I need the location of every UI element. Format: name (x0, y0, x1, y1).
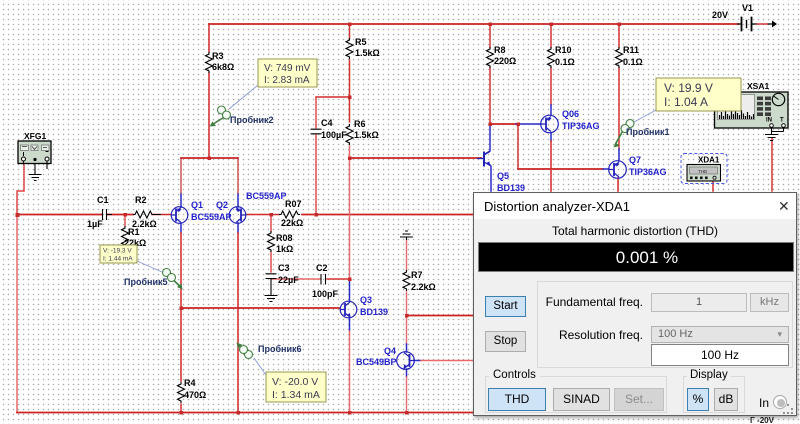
wire Q06 base blue (516, 123, 541, 125)
svg-text:Q2: Q2 (216, 200, 228, 210)
junction dots (16, 213, 20, 217)
svg-text:Γ -20V: Γ -20V (750, 416, 775, 424)
wire R10 top (550, 24, 552, 47)
label C3 (278, 263, 299, 285)
svg-text:20V: 20V (712, 10, 728, 20)
wire R8 bottom to Q06 base node (489, 68, 491, 124)
probe Пробник2 (210, 59, 318, 127)
dialog close button (778, 198, 790, 215)
transistor Q7 (609, 161, 627, 179)
transistor Q2 (229, 207, 246, 224)
svg-text:T: T (780, 118, 784, 124)
svg-text:C1: C1 (97, 195, 109, 205)
wire C1 to R2 (107, 214, 133, 216)
svg-text:V1: V1 (742, 3, 753, 13)
wire R08 branch (270, 215, 272, 232)
group box Display (683, 376, 745, 413)
svg-text:R10: R10 (555, 45, 572, 55)
label C1 (87, 195, 109, 229)
wire R08 to C3 (270, 252, 272, 272)
svg-text:I: 1.04 A: I: 1.04 A (664, 95, 708, 109)
label C4 (321, 118, 347, 140)
wire Q1 collector red down (180, 233, 182, 381)
wire R5 R6 column top (349, 24, 351, 38)
wire Q4 base to dialog (421, 360, 474, 362)
svg-text:Пробник6: Пробник6 (258, 344, 302, 354)
svg-text:Пробник2: Пробник2 (230, 115, 274, 125)
resistor R10 (548, 47, 555, 68)
battery V1 (738, 18, 777, 31)
wire bottom rail (17, 412, 474, 414)
wire R11 bottom to Q7 (618, 68, 620, 149)
wire R5 bottom to C4 junction (349, 60, 351, 122)
svg-text:100µF: 100µF (321, 130, 347, 140)
wire Q7 base blue stub (603, 168, 609, 170)
wire XSA1 IN pin down (771, 138, 773, 191)
wire C4 top (315, 97, 317, 128)
wire Q2 emitter drop (237, 158, 239, 194)
resistor R07 (279, 211, 300, 218)
group box Controls (485, 376, 667, 413)
probe Пробник1 (614, 78, 742, 148)
svg-text:XFG1: XFG1 (24, 131, 46, 141)
svg-text:V: -19.3 V: V: -19.3 V (103, 248, 132, 255)
dropdown 100 Hz (651, 326, 789, 343)
wire R3 top vertical (208, 24, 210, 52)
wire input net from XFG1 (17, 164, 24, 214)
wire XDA1 pin down (712, 181, 714, 191)
svg-text:C4: C4 (321, 118, 333, 128)
transistor Q1 (171, 207, 188, 224)
button Set disabled (614, 388, 664, 411)
button Stop (485, 331, 526, 352)
label Q1 (191, 200, 232, 222)
svg-text:I: 1.34 mA: I: 1.34 mA (272, 389, 320, 401)
svg-text:C2: C2 (316, 263, 328, 273)
wire Q06 bottom to dialog (550, 141, 552, 191)
wire R3 bottom to Q1Q2 emitter rail (208, 73, 210, 158)
wire ground to R7 (406, 240, 408, 270)
resistor R2 (133, 211, 161, 218)
resistor R11 (616, 47, 623, 68)
svg-text:1µF: 1µF (87, 219, 103, 229)
ground below XSA1 (765, 127, 784, 141)
resistor R6 (346, 124, 353, 145)
wire left feedback vertical (16, 215, 18, 413)
button Start (485, 296, 526, 317)
label Q4 (356, 346, 397, 367)
label C2 (312, 263, 339, 299)
svg-text:IN: IN (766, 118, 772, 124)
svg-text:XDA1: XDA1 (698, 156, 720, 165)
button SINAD (553, 388, 610, 411)
svg-text:BD139: BD139 (360, 307, 388, 317)
label -20V under dialog (750, 416, 775, 424)
svg-text:R11: R11 (623, 45, 639, 55)
wire Q06 base horizontal (490, 123, 516, 125)
wire Q1 collector down to R4 (180, 223, 182, 233)
svg-text:BC559AP: BC559AP (191, 212, 232, 222)
svg-text:R08: R08 (276, 233, 293, 243)
wire Q06 base node down (517, 124, 519, 169)
resistor R4 (178, 382, 185, 403)
wire Q2 collector down (237, 223, 239, 233)
wire Q5 collector blue (485, 124, 490, 154)
label Fundamental freq (517, 295, 643, 309)
wire Q1 emitter drop (180, 158, 182, 194)
wire Q2 base to R07 (246, 214, 279, 216)
wire Q4 emitter to rail (406, 377, 408, 413)
svg-text:Пробник5: Пробник5 (124, 277, 168, 287)
dialog Distortion analyzer-XDA1 (473, 192, 797, 416)
wire C4 bottom to input net (315, 135, 317, 215)
wire input horizontal to C1 (17, 214, 102, 216)
svg-text:Пробник1: Пробник1 (626, 127, 670, 137)
svg-text:R4: R4 (184, 378, 196, 388)
button THD (488, 388, 546, 411)
wire Q06 bottom blue (550, 133, 552, 141)
svg-text:R7: R7 (411, 270, 423, 280)
ground below C3 (265, 285, 278, 302)
capacitor C1 (103, 209, 113, 220)
svg-text:R1: R1 (128, 227, 140, 237)
label R7 (411, 270, 436, 292)
label Q5 (497, 171, 525, 193)
label Q06 (562, 109, 600, 131)
wire C2 right to Q3 collector column (327, 278, 350, 280)
svg-text:6k8Ω: 6k8Ω (212, 62, 234, 72)
svg-text:220Ω: 220Ω (494, 56, 516, 66)
svg-text:1.5kΩ: 1.5kΩ (354, 130, 379, 140)
label Resolution freq (517, 328, 643, 342)
svg-text:I: 2.83 mA: I: 2.83 mA (264, 75, 310, 86)
label R2 (132, 195, 157, 229)
field kHz (750, 293, 789, 312)
label Q7 (629, 155, 667, 177)
wire Q7 base horizontal (518, 168, 603, 170)
svg-text:R3: R3 (212, 51, 224, 61)
svg-text:Q7: Q7 (629, 155, 641, 165)
resize grip (787, 404, 789, 406)
svg-text:Q1: Q1 (191, 200, 203, 210)
dialog THD caption (474, 224, 796, 238)
svg-text:0.1Ω: 0.1Ω (623, 57, 643, 67)
function generator XFG1 (18, 131, 51, 169)
wire Q7 top blue (618, 149, 620, 161)
svg-text:2.2kΩ: 2.2kΩ (411, 282, 436, 292)
In radio (759, 396, 769, 410)
label R11 (623, 45, 643, 67)
label R3 (212, 51, 234, 72)
wire Q4 base blue stub (414, 360, 421, 362)
svg-text:V: -20.0 V: V: -20.0 V (272, 376, 318, 388)
resistor R08 (268, 231, 275, 252)
button percent (687, 388, 709, 411)
capacitor C3 (266, 274, 277, 285)
svg-text:I: 1.44 mA: I: 1.44 mA (103, 256, 133, 263)
field 100 Hz white (651, 344, 789, 366)
svg-text:Q5: Q5 (497, 171, 509, 181)
transistor Q3 (340, 301, 357, 318)
label R1 (124, 227, 146, 248)
svg-text:C3: C3 (278, 263, 290, 273)
wire R2 to Q1 base (152, 214, 171, 216)
ground below XFG1 (29, 161, 42, 181)
wire top +20V rail (209, 23, 738, 25)
wire R10 bottom (550, 68, 552, 105)
wire Q2 emitter blue (237, 194, 239, 207)
group box frequencies (537, 281, 793, 368)
svg-text:R6: R6 (354, 119, 366, 129)
svg-text:22µF: 22µF (278, 275, 299, 285)
wire R11 top (618, 24, 620, 47)
wire Q3 emitter blue (349, 318, 351, 331)
dialog black display 0.001% (478, 242, 794, 272)
wire R6 junction to Q5 base (350, 157, 482, 159)
wire R7 node to dialog (407, 315, 475, 317)
wire R1 branch vertical (124, 215, 126, 227)
label R8 (494, 45, 516, 66)
svg-text:470Ω: 470Ω (184, 390, 206, 400)
wire Q3 base horizontal (181, 307, 340, 309)
capacitor C2 (321, 274, 326, 285)
wire Q3 emitter to bottom rail (349, 331, 351, 413)
svg-text:R07: R07 (285, 199, 302, 209)
label Q3 (360, 295, 388, 317)
wire R07 to dialog (302, 214, 474, 216)
wire R8 top (489, 24, 491, 47)
svg-text:V: 19.9 V: V: 19.9 V (664, 81, 713, 95)
svg-text:BC559AP: BC559AP (246, 191, 287, 201)
resistor R5 (346, 38, 353, 59)
wire Q4 collector blue (406, 344, 408, 352)
field fundamental value 1 (651, 293, 747, 312)
wire R7 bottom (406, 292, 408, 316)
resistor R8 (487, 47, 494, 68)
resistor R1 (122, 226, 129, 247)
svg-text:Q06: Q06 (562, 109, 579, 119)
svg-text:XSA1: XSA1 (747, 81, 769, 91)
label V1 (712, 3, 753, 20)
svg-text:R8: R8 (494, 45, 506, 55)
transistor Q4 (397, 352, 415, 370)
distortion analyzer XDA1 icon (681, 154, 727, 184)
label R07 (281, 199, 303, 228)
transistor Q5 (477, 152, 490, 167)
svg-text:R2: R2 (135, 195, 147, 205)
svg-text:100pF: 100pF (312, 289, 339, 299)
wire Q7 bottom to dialog (617, 178, 619, 191)
spectrum analyzer XSA1 (715, 81, 789, 128)
wire R4 bottom (180, 404, 182, 413)
svg-text:22kΩ: 22kΩ (281, 218, 303, 228)
svg-text:V: 749 mV: V: 749 mV (264, 63, 311, 74)
svg-text:TIP36AG: TIP36AG (629, 167, 667, 177)
wire Q06 top blue (550, 105, 552, 115)
label R10 (555, 45, 575, 67)
svg-text:Q3: Q3 (360, 295, 372, 305)
wire R6 bottom junction down (349, 146, 351, 279)
label R4 (184, 378, 206, 400)
wire Q4 emitter blue (406, 369, 408, 377)
wire Q1 Q2 emitter horizontal (181, 157, 238, 159)
ground above R7 (400, 231, 413, 240)
svg-text:0.1Ω: 0.1Ω (555, 57, 575, 67)
probe Пробник5 (100, 245, 183, 290)
label R6 (354, 119, 379, 140)
wire Q3 collector blue (349, 279, 351, 301)
wire Q5 emitter blue down to dialog (488, 163, 491, 191)
resistor R7 (403, 270, 410, 291)
button dB (714, 388, 738, 411)
wire C3 to C2 (271, 278, 320, 280)
wire R7 node down to Q4 (406, 316, 408, 345)
wire C4 branch horizontal (316, 96, 350, 98)
label R08 (276, 233, 293, 254)
wire Q1 emitter blue (180, 194, 182, 207)
label Q2 (216, 191, 287, 210)
label R5 (355, 37, 380, 58)
wire Q2 collector red down to rail (237, 233, 239, 413)
svg-text:R5: R5 (355, 37, 367, 47)
svg-text:1kΩ: 1kΩ (276, 244, 293, 254)
svg-text:THD: THD (698, 169, 708, 174)
svg-text:1.5kΩ: 1.5kΩ (355, 48, 380, 58)
probe Пробник6 (237, 343, 327, 403)
svg-text:Q4: Q4 (384, 346, 396, 356)
transistor Q06 (541, 115, 559, 133)
svg-text:TIP36AG: TIP36AG (562, 121, 600, 131)
svg-text:BC549BP: BC549BP (356, 357, 397, 367)
dialog title bar (474, 193, 796, 219)
capacitor C4 (311, 129, 322, 134)
wire R1 lower hidden (124, 248, 126, 258)
resistor R3 (206, 52, 213, 73)
